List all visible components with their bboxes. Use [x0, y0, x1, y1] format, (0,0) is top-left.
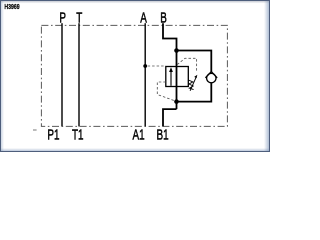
svg-text:B1: B1: [157, 127, 169, 144]
svg-text:H3969: H3969: [4, 3, 20, 11]
svg-text:T: T: [76, 10, 82, 27]
svg-text:T1: T1: [72, 127, 84, 144]
svg-text:P1: P1: [47, 127, 59, 144]
svg-text:B: B: [160, 10, 167, 27]
svg-text:A: A: [140, 10, 147, 27]
svg-text:P: P: [59, 10, 66, 27]
svg-text:A1: A1: [133, 127, 145, 144]
